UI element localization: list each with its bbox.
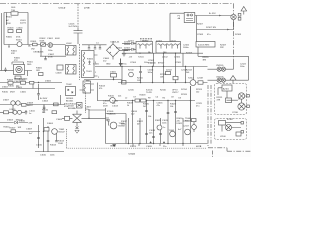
svg-text:L2106: L2106 bbox=[220, 136, 226, 138]
upper mid wires bbox=[170, 13, 184, 41]
line filter choke upper winding bbox=[66, 46, 77, 56]
chain line bottom right horizontal bbox=[208, 148, 251, 151]
svg-text:B+ 95V: B+ 95V bbox=[209, 13, 216, 15]
svg-text:D1604: D1604 bbox=[47, 123, 54, 125]
svg-text:BYV27: BYV27 bbox=[158, 63, 165, 65]
svg-text:CN2105: CN2105 bbox=[216, 65, 224, 67]
antenna triangle top right bbox=[241, 7, 247, 15]
junction dots bbox=[38, 66, 191, 144]
caps near x106 bbox=[106, 114, 127, 144]
wire mains row bbox=[28, 44, 66, 46]
svg-text:R2108: R2108 bbox=[186, 53, 193, 55]
svg-text:D2112: D2112 bbox=[166, 70, 173, 72]
right dashed box lower bbox=[215, 119, 247, 140]
component below bus y79 bbox=[122, 81, 127, 85]
long bus y66.8 bbox=[95, 66, 208, 68]
connector P1602 bbox=[178, 13, 195, 23]
chopper transistor X symbol bbox=[68, 106, 82, 123]
ground triangle right bbox=[119, 59, 123, 67]
capacitor C2101 reservoir bbox=[116, 48, 126, 57]
svg-text:BU508A: BU508A bbox=[68, 107, 76, 110]
svg-text:C1605: C1605 bbox=[93, 64, 100, 66]
transistor small mid bbox=[157, 125, 162, 130]
svg-text:220V: 220V bbox=[6, 23, 11, 25]
svg-text:PRI: PRI bbox=[86, 81, 90, 83]
extra labels density pass bbox=[29, 59, 240, 148]
svg-text:IC2105 REG: IC2105 REG bbox=[198, 45, 210, 47]
svg-text:R1625: R1625 bbox=[155, 120, 162, 122]
ground triangle above right box bbox=[230, 76, 236, 84]
density pass 2 bbox=[2, 17, 247, 157]
bottom left wire bbox=[0, 131, 40, 133]
stubs below bottom bus bbox=[133, 144, 183, 147]
barrier dashed vertical through mains transformer bbox=[79, 44, 81, 80]
junction dot bus y79 bbox=[113, 79, 114, 80]
svg-text:L2102: L2102 bbox=[162, 57, 168, 59]
svg-text:100u: 100u bbox=[144, 62, 148, 64]
verticals bottom left bbox=[39, 118, 49, 152]
svg-text:C1601: C1601 bbox=[47, 38, 54, 40]
svg-text:D2102: D2102 bbox=[156, 41, 163, 43]
resistor R1603 bbox=[8, 28, 15, 33]
component below transformer bbox=[70, 103, 82, 109]
svg-text:T1601: T1601 bbox=[86, 71, 93, 73]
bus y79 bbox=[84, 79, 122, 81]
right dashed box upper bbox=[215, 84, 247, 115]
resistor R1607 bbox=[10, 128, 17, 133]
svg-text:R1601: R1601 bbox=[31, 41, 38, 43]
svg-text:P1601: P1601 bbox=[6, 17, 13, 19]
components on bus y104 bbox=[11, 101, 46, 109]
caps bottom left bbox=[37, 132, 58, 142]
svg-text:BD1601: BD1601 bbox=[66, 101, 74, 103]
svg-text:C2108: C2108 bbox=[197, 34, 204, 36]
svg-text:L1602: L1602 bbox=[66, 43, 72, 45]
svg-text:GND: GND bbox=[106, 64, 111, 66]
ground triangle under IC box bbox=[112, 144, 116, 147]
wire lower mains row bbox=[40, 47, 66, 56]
svg-text:T1602: T1602 bbox=[66, 84, 73, 86]
svg-text:R1607: R1607 bbox=[10, 128, 17, 130]
svg-text:CNY17: CNY17 bbox=[172, 92, 179, 94]
svg-text:47u: 47u bbox=[157, 105, 160, 107]
contents lower dashed box bbox=[219, 121, 244, 139]
extra caps mid grid bbox=[145, 110, 177, 113]
regulator box bbox=[196, 42, 215, 48]
svg-text:R2116: R2116 bbox=[160, 90, 167, 92]
degauss posistor wire bbox=[0, 70, 14, 72]
svg-text:R1600: R1600 bbox=[6, 37, 13, 39]
svg-text:R1606: R1606 bbox=[87, 59, 94, 61]
verticals mid bottom grid bbox=[129, 86, 191, 144]
svg-text:R2126: R2126 bbox=[181, 94, 188, 96]
left column row y122 bbox=[0, 121, 33, 125]
svg-text:S10K: S10K bbox=[40, 41, 46, 43]
component above bus y79 bbox=[110, 72, 117, 80]
svg-text:470u: 470u bbox=[148, 63, 152, 65]
base feed box bbox=[65, 116, 70, 120]
extra labels mid grid bbox=[125, 97, 192, 132]
core dashes above secondary bbox=[140, 37, 153, 39]
svg-text:100n: 100n bbox=[50, 155, 54, 157]
barrier dash below driver transformer bbox=[85, 93, 87, 113]
capacitor C1601 bbox=[47, 38, 60, 52]
varistor bbox=[40, 38, 47, 46]
svg-text:C1608: C1608 bbox=[56, 119, 63, 121]
svg-text:TDA4605: TDA4605 bbox=[107, 113, 116, 116]
svg-text:D2101: D2101 bbox=[128, 41, 135, 43]
bottom wire bbox=[35, 151, 64, 153]
svg-text:1000u: 1000u bbox=[183, 47, 189, 49]
capacitor C2105 barrier bbox=[69, 24, 83, 45]
svg-text:C1603: C1603 bbox=[56, 73, 63, 75]
svg-text:SB360: SB360 bbox=[124, 50, 131, 52]
capacitor bank before bridge bbox=[88, 45, 101, 49]
svg-text:R1613: R1613 bbox=[50, 145, 57, 147]
bus y100.2 bbox=[97, 100, 195, 102]
svg-text:C2106: C2106 bbox=[174, 57, 181, 59]
small box lower left of choke bbox=[56, 65, 64, 75]
svg-text:T2101: T2101 bbox=[138, 57, 145, 59]
bus y104.8 bbox=[0, 104, 65, 106]
svg-text:R1623: R1623 bbox=[130, 146, 137, 148]
cap on vertical x38 bbox=[37, 84, 40, 100]
transistor Q1601 bbox=[52, 129, 66, 135]
svg-text:150R: 150R bbox=[58, 143, 63, 145]
isolation barrier chain line top bbox=[0, 3, 234, 5]
emitter cross and ground bbox=[76, 127, 79, 129]
chain line mid right vertical pair bbox=[207, 85, 209, 148]
extra mid right components bbox=[128, 70, 171, 77]
bridge rectifier D1601-4 bbox=[107, 41, 129, 60]
svg-text:R1610: R1610 bbox=[2, 92, 9, 94]
svg-text:18R: 18R bbox=[36, 70, 40, 72]
verticals between y67 and y82 bbox=[139, 67, 193, 83]
X circle connector top right bbox=[231, 14, 236, 19]
junction to IC bbox=[89, 110, 106, 118]
connector pair CN2 bbox=[208, 78, 249, 82]
svg-text:SB360: SB360 bbox=[124, 44, 131, 46]
left texts row y99 bbox=[3, 95, 61, 106]
svg-text:C2118: C2118 bbox=[197, 78, 204, 80]
IC box left of driver transformer bbox=[66, 87, 76, 96]
transistor T1606 bbox=[185, 129, 191, 135]
wire right down bbox=[198, 47, 249, 80]
box on vertical 175 bbox=[173, 76, 178, 79]
svg-text:100n: 100n bbox=[148, 72, 152, 74]
bottom left diode row bbox=[7, 120, 23, 122]
transformer T1601 primary box bbox=[82, 51, 98, 78]
svg-text:GND1: GND1 bbox=[110, 146, 116, 148]
svg-text:SB360: SB360 bbox=[142, 41, 149, 43]
svg-text:100n: 100n bbox=[162, 123, 166, 125]
svg-text:1n: 1n bbox=[163, 127, 165, 129]
svg-text:470n: 470n bbox=[48, 57, 52, 59]
svg-text:470u: 470u bbox=[122, 64, 126, 66]
svg-text:K2102: K2102 bbox=[227, 119, 234, 121]
svg-text:R2107: R2107 bbox=[197, 24, 204, 26]
svg-text:D2108: D2108 bbox=[235, 34, 242, 36]
arrow on wire bbox=[219, 15, 221, 17]
diode labels left of secondary bbox=[122, 42, 136, 53]
svg-text:10R: 10R bbox=[18, 127, 22, 129]
svg-text:COLD: COLD bbox=[129, 154, 136, 156]
components on bus y82 left bbox=[7, 80, 14, 85]
posistor R1605 bbox=[4, 58, 32, 84]
barrier dashed vertical lower bbox=[66, 129, 68, 148]
svg-text:2x: 2x bbox=[238, 99, 240, 101]
svg-text:R1610: R1610 bbox=[8, 86, 15, 88]
svg-text:C2130: C2130 bbox=[232, 112, 239, 114]
wire second top right bbox=[197, 16, 234, 42]
svg-text:100n: 100n bbox=[240, 66, 244, 68]
transistor on bus y82 right bbox=[188, 78, 203, 86]
svg-text:D1606: D1606 bbox=[45, 81, 52, 83]
svg-text:BC858: BC858 bbox=[119, 126, 126, 128]
components left of lower dashed box bbox=[183, 86, 196, 132]
small box bbox=[44, 128, 49, 131]
vertical x153 upper bbox=[153, 53, 155, 66]
transistor T1605 bbox=[170, 131, 176, 137]
secondary winding box 1 bbox=[136, 42, 153, 54]
svg-text:T2112: T2112 bbox=[188, 78, 194, 80]
barrier dotted horizontal bottom bbox=[67, 147, 207, 149]
vertical x120 bbox=[120, 59, 122, 67]
svg-text:2x27m: 2x27m bbox=[20, 23, 26, 25]
svg-text:D2107 16V: D2107 16V bbox=[206, 27, 217, 29]
svg-text:D2114: D2114 bbox=[181, 89, 188, 91]
svg-text:10R: 10R bbox=[137, 80, 141, 82]
components on bus y88 bbox=[16, 87, 23, 89]
switch S1601 bbox=[4, 40, 28, 48]
svg-text:C1613: C1613 bbox=[112, 106, 119, 108]
wire top right bbox=[195, 15, 231, 17]
connector verticals left bbox=[13, 83, 44, 115]
svg-text:250V: 250V bbox=[103, 106, 108, 108]
mains input box bbox=[4, 13, 28, 45]
contents upper dashed box bbox=[217, 85, 250, 110]
svg-text:T1605: T1605 bbox=[169, 130, 176, 132]
transistor on bus mid bbox=[110, 97, 116, 103]
svg-text:470k: 470k bbox=[64, 106, 68, 108]
svg-text:47R: 47R bbox=[217, 100, 221, 102]
svg-text:C1610: C1610 bbox=[40, 155, 47, 157]
wire to bridge bbox=[82, 44, 107, 46]
svg-text:S1601: S1601 bbox=[16, 40, 23, 42]
fuse F1601 bbox=[11, 7, 18, 15]
resistor R1601 bbox=[31, 41, 38, 51]
bus below transformer bbox=[122, 52, 203, 54]
svg-text:NTC: NTC bbox=[11, 53, 16, 55]
barrier dashed vertical top bbox=[77, 4, 79, 28]
svg-text:CN2106: CN2106 bbox=[216, 77, 224, 79]
connector pair CN1 bbox=[208, 62, 234, 71]
svg-text:400V: 400V bbox=[55, 38, 60, 40]
svg-text:22n: 22n bbox=[163, 146, 166, 148]
svg-text:470k: 470k bbox=[16, 37, 20, 39]
transistor Q1602 bbox=[110, 122, 125, 129]
ground triangles on bottom bus bbox=[149, 141, 152, 143]
svg-text:C2117: C2117 bbox=[183, 126, 190, 128]
svg-text:22k: 22k bbox=[118, 96, 121, 98]
pin squares bbox=[238, 13, 241, 16]
component on bus y100 bbox=[135, 95, 146, 103]
svg-text:LIVE: LIVE bbox=[84, 7, 90, 9]
wire from chopper bbox=[62, 111, 106, 127]
svg-text:C2105: C2105 bbox=[175, 62, 182, 64]
svg-text:1n: 1n bbox=[29, 113, 31, 115]
svg-text:C1620: C1620 bbox=[146, 146, 153, 148]
svg-text:D2116: D2116 bbox=[183, 121, 190, 123]
caps in grid bbox=[145, 133, 162, 137]
svg-text:DEGAUSSING: DEGAUSSING bbox=[14, 78, 28, 81]
svg-text:C1609: C1609 bbox=[26, 129, 33, 131]
svg-text:C2104: C2104 bbox=[130, 62, 137, 64]
svg-text:C1610: C1610 bbox=[36, 145, 43, 147]
resistor R1604 bbox=[17, 28, 24, 33]
left column row y112 bbox=[0, 109, 57, 115]
svg-text:47u: 47u bbox=[196, 106, 199, 108]
svg-text:BC547: BC547 bbox=[59, 132, 66, 134]
control IC region bottom mid bbox=[105, 108, 107, 144]
svg-text:C2115: C2115 bbox=[128, 90, 135, 92]
svg-text:TL431: TL431 bbox=[146, 92, 153, 94]
svg-text:C2101: C2101 bbox=[116, 48, 123, 50]
svg-text:10k: 10k bbox=[148, 116, 151, 118]
svg-text:D1607: D1607 bbox=[3, 100, 10, 102]
svg-text:L2103: L2103 bbox=[170, 41, 176, 43]
vertical x97 bbox=[97, 83, 99, 101]
mains input double line bbox=[1, 13, 4, 71]
svg-text:47R: 47R bbox=[29, 123, 33, 125]
driver transformer T1602 bbox=[66, 81, 94, 93]
svg-text:A2101: A2101 bbox=[223, 88, 230, 91]
bus y82.6 left bbox=[0, 82, 62, 84]
svg-text:R1615: R1615 bbox=[108, 96, 115, 98]
svg-text:47k: 47k bbox=[99, 88, 102, 90]
svg-text:D1603: D1603 bbox=[7, 120, 14, 122]
svg-text:10n: 10n bbox=[149, 133, 152, 135]
bus y88.8 bbox=[0, 88, 55, 90]
bus y82.6 right bbox=[118, 82, 208, 84]
svg-text:COLD: COLD bbox=[59, 7, 66, 9]
secondary winding box 2 bbox=[156, 42, 181, 54]
capacitor small bbox=[44, 56, 47, 60]
ground symbol bridge bbox=[88, 61, 91, 65]
svg-text:2n2 250V: 2n2 250V bbox=[69, 26, 78, 28]
svg-text:R1618: R1618 bbox=[140, 95, 147, 97]
svg-text:C1605: C1605 bbox=[20, 92, 27, 94]
svg-text:D1602: D1602 bbox=[2, 87, 9, 89]
svg-text:LIVE: LIVE bbox=[196, 146, 202, 148]
svg-text:C1604: C1604 bbox=[42, 101, 49, 103]
svg-text:1N4148: 1N4148 bbox=[16, 120, 24, 122]
svg-text:BA157: BA157 bbox=[27, 104, 34, 107]
line filter choke lower winding bbox=[66, 65, 77, 75]
chain line bottom right short vertical bbox=[212, 151, 214, 158]
svg-text:DEGAUSS: DEGAUSS bbox=[34, 51, 44, 54]
svg-text:10k: 10k bbox=[170, 106, 173, 108]
svg-text:100n: 100n bbox=[48, 50, 52, 52]
svg-text:100k: 100k bbox=[121, 124, 125, 126]
svg-text:R2110: R2110 bbox=[128, 70, 135, 72]
svg-text:D1601-04: D1601-04 bbox=[111, 41, 121, 43]
svg-text:1k: 1k bbox=[127, 105, 129, 107]
svg-text:47u: 47u bbox=[207, 34, 210, 36]
isolation barrier chain line right vertical bbox=[233, 4, 235, 63]
svg-text:DEG: DEG bbox=[27, 64, 32, 66]
